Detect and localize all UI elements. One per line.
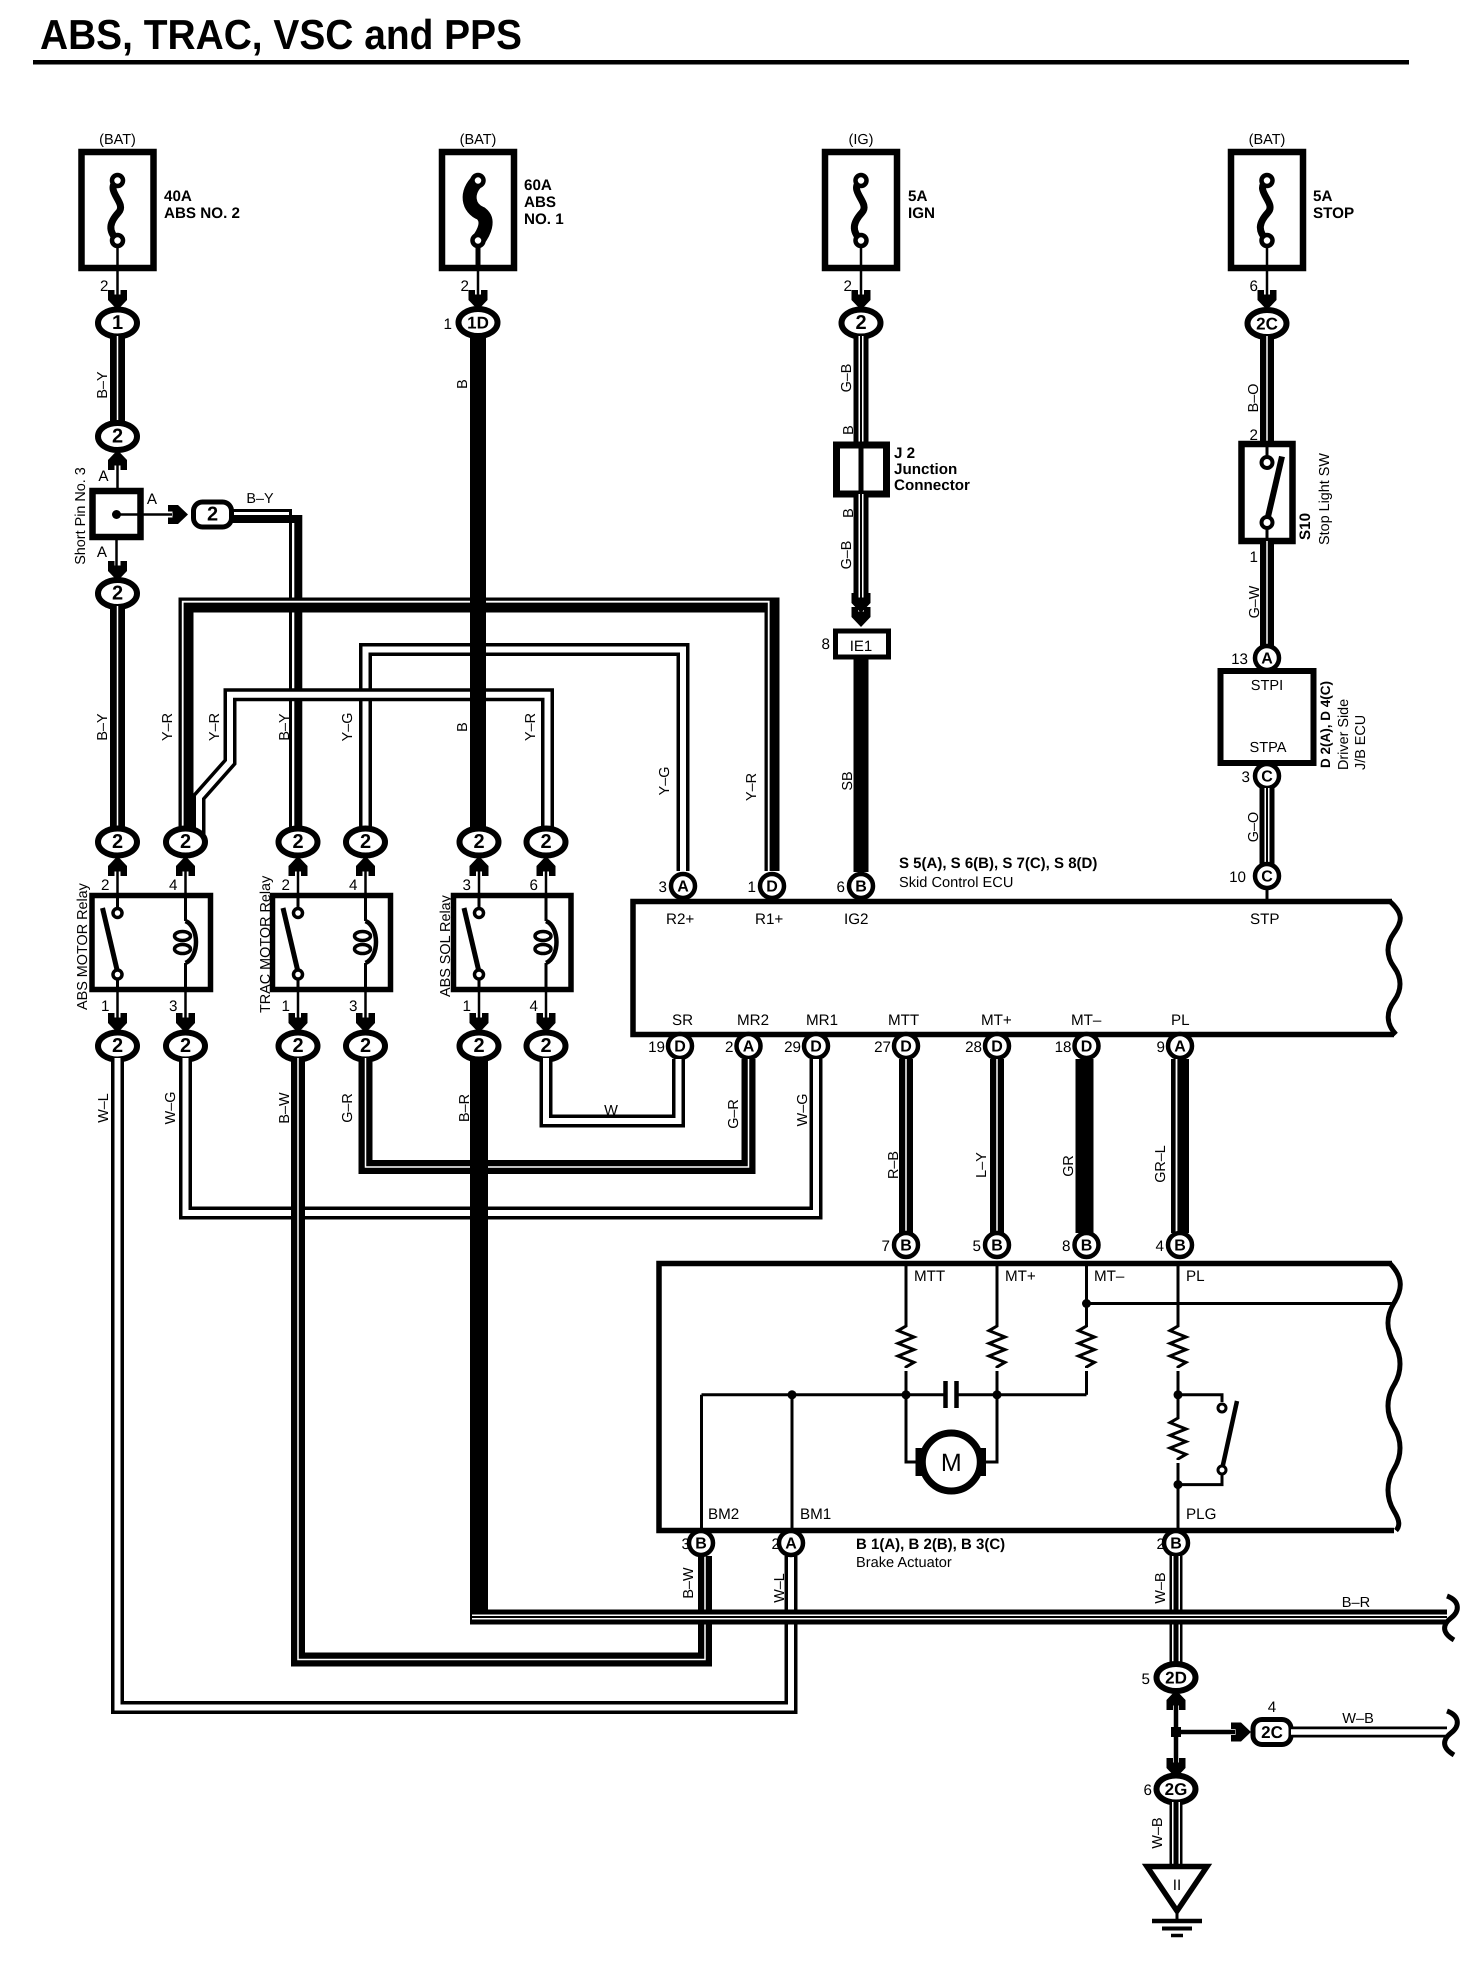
svg-text:2C: 2C bbox=[1261, 1723, 1283, 1742]
svg-text:W–B: W–B bbox=[1342, 1711, 1374, 1727]
svg-text:3: 3 bbox=[659, 879, 667, 896]
svg-text:2: 2 bbox=[180, 831, 191, 853]
svg-text:6: 6 bbox=[1250, 278, 1258, 295]
svg-text:BM1: BM1 bbox=[800, 1506, 831, 1523]
svg-text:Connector: Connector bbox=[894, 477, 970, 494]
svg-text:2: 2 bbox=[112, 1035, 123, 1057]
svg-text:B–Y: B–Y bbox=[277, 713, 293, 741]
svg-text:B–Y: B–Y bbox=[246, 491, 274, 507]
svg-text:60A: 60A bbox=[524, 177, 552, 194]
svg-text:3: 3 bbox=[1242, 769, 1250, 786]
svg-text:2: 2 bbox=[207, 504, 218, 526]
svg-text:5: 5 bbox=[1142, 1671, 1150, 1688]
svg-text:2: 2 bbox=[292, 1035, 303, 1057]
svg-text:PL: PL bbox=[1171, 1012, 1190, 1029]
svg-text:GR: GR bbox=[1061, 1155, 1077, 1177]
svg-text:W: W bbox=[604, 1103, 618, 1119]
svg-text:2: 2 bbox=[473, 831, 484, 853]
svg-text:W–B: W–B bbox=[1150, 1817, 1166, 1848]
svg-text:2: 2 bbox=[540, 1035, 551, 1057]
svg-text:4: 4 bbox=[1268, 1699, 1276, 1716]
svg-text:MTT: MTT bbox=[914, 1268, 945, 1285]
svg-text:Y–R: Y–R bbox=[160, 713, 176, 741]
svg-text:MT–: MT– bbox=[1094, 1268, 1125, 1285]
svg-text:B–R: B–R bbox=[457, 1094, 473, 1122]
svg-text:IG2: IG2 bbox=[844, 911, 868, 928]
svg-text:STPI: STPI bbox=[1251, 678, 1283, 694]
svg-text:2: 2 bbox=[112, 583, 123, 605]
svg-text:2: 2 bbox=[360, 831, 371, 853]
svg-text:W–G: W–G bbox=[795, 1094, 811, 1127]
svg-text:4: 4 bbox=[1156, 1238, 1164, 1255]
svg-text:A: A bbox=[1174, 1039, 1186, 1056]
svg-text:ABS MOTOR Relay: ABS MOTOR Relay bbox=[75, 882, 91, 1010]
svg-text:1: 1 bbox=[112, 312, 123, 334]
svg-text:2: 2 bbox=[844, 278, 852, 295]
svg-text:2G: 2G bbox=[1165, 1780, 1188, 1799]
svg-text:2: 2 bbox=[360, 1035, 371, 1057]
svg-text:27: 27 bbox=[874, 1039, 891, 1056]
svg-text:1: 1 bbox=[748, 879, 756, 896]
svg-text:6: 6 bbox=[837, 879, 845, 896]
svg-text:B: B bbox=[855, 879, 867, 896]
svg-text:Y–G: Y–G bbox=[340, 713, 356, 742]
svg-text:(IG): (IG) bbox=[849, 132, 874, 148]
svg-text:IGN: IGN bbox=[908, 205, 935, 222]
svg-text:NO. 1: NO. 1 bbox=[524, 211, 564, 228]
svg-text:2: 2 bbox=[855, 312, 866, 334]
svg-text:3: 3 bbox=[682, 1536, 690, 1553]
svg-text:B–R: B–R bbox=[1342, 1595, 1370, 1611]
svg-text:3: 3 bbox=[169, 998, 177, 1015]
svg-text:S 5(A), S 6(B), S 7(C), S 8(D): S 5(A), S 6(B), S 7(C), S 8(D) bbox=[899, 855, 1097, 872]
svg-text:D 2(A), D 4(C): D 2(A), D 4(C) bbox=[1318, 681, 1333, 768]
svg-text:1: 1 bbox=[282, 998, 290, 1015]
svg-text:10: 10 bbox=[1229, 869, 1246, 886]
svg-text:G–R: G–R bbox=[340, 1093, 356, 1123]
svg-text:S10: S10 bbox=[1297, 513, 1314, 540]
svg-text:2: 2 bbox=[100, 278, 108, 295]
svg-text:4: 4 bbox=[169, 877, 177, 894]
svg-text:2: 2 bbox=[461, 278, 469, 295]
svg-text:2: 2 bbox=[101, 877, 109, 894]
svg-text:2C: 2C bbox=[1256, 315, 1278, 334]
svg-text:W–L: W–L bbox=[96, 1093, 112, 1123]
svg-text:Short Pin No. 3: Short Pin No. 3 bbox=[73, 467, 89, 565]
svg-text:Y–R: Y–R bbox=[207, 713, 223, 741]
svg-text:MR2: MR2 bbox=[737, 1012, 769, 1029]
svg-text:SR: SR bbox=[672, 1012, 693, 1029]
svg-text:ABS SOL Relay: ABS SOL Relay bbox=[438, 894, 454, 997]
svg-text:B: B bbox=[841, 508, 857, 518]
svg-text:B: B bbox=[991, 1238, 1003, 1255]
svg-text:M: M bbox=[941, 1449, 962, 1477]
svg-text:Y–R: Y–R bbox=[744, 773, 760, 801]
svg-text:D: D bbox=[766, 879, 778, 896]
svg-text:PLG: PLG bbox=[1186, 1506, 1216, 1523]
svg-text:1: 1 bbox=[444, 316, 452, 333]
svg-text:2: 2 bbox=[112, 831, 123, 853]
svg-text:2: 2 bbox=[772, 1536, 780, 1553]
svg-text:B: B bbox=[455, 722, 471, 732]
svg-text:2: 2 bbox=[112, 426, 123, 448]
svg-text:GR–L: GR–L bbox=[1153, 1145, 1169, 1183]
svg-text:C: C bbox=[1261, 869, 1273, 886]
svg-text:PL: PL bbox=[1186, 1268, 1205, 1285]
svg-text:R1+: R1+ bbox=[755, 911, 783, 928]
svg-text:B–O: B–O bbox=[1246, 384, 1262, 413]
svg-text:MR1: MR1 bbox=[806, 1012, 838, 1029]
svg-text:R–B: R–B bbox=[886, 1151, 902, 1179]
svg-text:D: D bbox=[991, 1039, 1003, 1056]
svg-text:A: A bbox=[677, 879, 689, 896]
svg-text:D: D bbox=[900, 1039, 912, 1056]
svg-text:B: B bbox=[1174, 1238, 1186, 1255]
svg-text:9: 9 bbox=[1157, 1039, 1165, 1056]
svg-text:B 1(A), B 2(B), B 3(C): B 1(A), B 2(B), B 3(C) bbox=[856, 1536, 1005, 1553]
svg-text:D: D bbox=[674, 1039, 686, 1056]
svg-text:Y–G: Y–G bbox=[657, 767, 673, 796]
svg-text:1: 1 bbox=[463, 998, 471, 1015]
svg-text:3: 3 bbox=[463, 877, 471, 894]
svg-text:8: 8 bbox=[822, 636, 830, 653]
svg-text:II: II bbox=[1173, 1877, 1181, 1894]
svg-text:A: A bbox=[743, 1039, 755, 1056]
svg-text:B–Y: B–Y bbox=[95, 371, 111, 399]
svg-text:D: D bbox=[1081, 1039, 1093, 1056]
svg-text:B–Y: B–Y bbox=[95, 713, 111, 741]
svg-text:(BAT): (BAT) bbox=[460, 132, 497, 148]
svg-text:2: 2 bbox=[473, 1035, 484, 1057]
svg-text:Skid Control ECU: Skid Control ECU bbox=[899, 875, 1013, 891]
svg-text:G–R: G–R bbox=[726, 1099, 742, 1129]
svg-text:A: A bbox=[785, 1536, 797, 1553]
svg-text:G–W: G–W bbox=[1247, 585, 1263, 618]
svg-text:W–B: W–B bbox=[1153, 1572, 1169, 1603]
svg-text:J 2: J 2 bbox=[894, 445, 915, 462]
svg-text:A: A bbox=[97, 544, 108, 561]
svg-text:STOP: STOP bbox=[1313, 205, 1354, 222]
svg-text:MTT: MTT bbox=[888, 1012, 919, 1029]
svg-text:2: 2 bbox=[540, 831, 551, 853]
svg-text:(BAT): (BAT) bbox=[99, 132, 136, 148]
svg-text:Y–R: Y–R bbox=[523, 713, 539, 741]
svg-text:B: B bbox=[455, 379, 471, 389]
svg-text:MT+: MT+ bbox=[1005, 1268, 1036, 1285]
svg-text:MT–: MT– bbox=[1071, 1012, 1102, 1029]
svg-text:W–G: W–G bbox=[163, 1092, 179, 1125]
svg-text:B: B bbox=[1081, 1238, 1093, 1255]
svg-text:B–W: B–W bbox=[277, 1092, 293, 1124]
svg-text:4: 4 bbox=[349, 877, 357, 894]
svg-text:6: 6 bbox=[1144, 1782, 1152, 1799]
svg-text:W–L: W–L bbox=[772, 1573, 788, 1603]
svg-text:C: C bbox=[1261, 769, 1273, 786]
svg-text:B: B bbox=[695, 1536, 707, 1553]
svg-text:13: 13 bbox=[1231, 651, 1248, 668]
svg-text:1: 1 bbox=[1250, 549, 1258, 566]
svg-text:8: 8 bbox=[1062, 1238, 1070, 1255]
svg-text:Brake Actuator: Brake Actuator bbox=[856, 1555, 952, 1571]
svg-text:6: 6 bbox=[530, 877, 538, 894]
svg-text:ABS, TRAC, VSC and PPS: ABS, TRAC, VSC and PPS bbox=[40, 11, 522, 58]
svg-text:BM2: BM2 bbox=[708, 1506, 739, 1523]
svg-text:MT+: MT+ bbox=[981, 1012, 1012, 1029]
svg-text:TRAC MOTOR Relay: TRAC MOTOR Relay bbox=[258, 875, 274, 1013]
svg-text:2D: 2D bbox=[1165, 1669, 1187, 1688]
svg-text:18: 18 bbox=[1055, 1039, 1072, 1056]
svg-text:29: 29 bbox=[784, 1039, 801, 1056]
svg-text:2: 2 bbox=[282, 877, 290, 894]
svg-text:5: 5 bbox=[973, 1238, 981, 1255]
svg-text:2: 2 bbox=[1157, 1536, 1165, 1553]
svg-text:STP: STP bbox=[1250, 911, 1280, 928]
svg-text:4: 4 bbox=[530, 998, 538, 1015]
svg-text:B: B bbox=[900, 1238, 912, 1255]
svg-text:G–O: G–O bbox=[1246, 812, 1262, 842]
svg-text:G–B: G–B bbox=[839, 364, 855, 393]
svg-text:ABS: ABS bbox=[524, 194, 556, 211]
svg-text:Stop Light SW: Stop Light SW bbox=[1317, 453, 1333, 545]
svg-text:7: 7 bbox=[882, 1238, 890, 1255]
svg-text:2: 2 bbox=[292, 831, 303, 853]
svg-text:1: 1 bbox=[101, 998, 109, 1015]
svg-text:R2+: R2+ bbox=[666, 911, 694, 928]
svg-text:2: 2 bbox=[180, 1035, 191, 1057]
svg-text:L–Y: L–Y bbox=[974, 1152, 990, 1178]
svg-text:Driver Side: Driver Side bbox=[1336, 699, 1352, 770]
svg-text:1D: 1D bbox=[467, 314, 489, 333]
svg-text:(BAT): (BAT) bbox=[1249, 132, 1286, 148]
svg-text:3: 3 bbox=[349, 998, 357, 1015]
svg-text:B: B bbox=[1170, 1536, 1182, 1553]
svg-text:J/B ECU: J/B ECU bbox=[1353, 715, 1369, 770]
svg-text:A: A bbox=[98, 468, 109, 485]
svg-text:IE1: IE1 bbox=[850, 638, 873, 655]
svg-text:A: A bbox=[1261, 651, 1273, 668]
svg-text:2: 2 bbox=[725, 1039, 733, 1056]
svg-text:B–W: B–W bbox=[681, 1567, 697, 1599]
svg-text:G–B: G–B bbox=[839, 541, 855, 570]
svg-text:40A: 40A bbox=[164, 188, 192, 205]
svg-text:STPA: STPA bbox=[1249, 740, 1286, 756]
svg-text:SB: SB bbox=[840, 771, 856, 790]
svg-text:B: B bbox=[841, 425, 857, 435]
svg-text:A: A bbox=[147, 491, 158, 508]
svg-text:Junction: Junction bbox=[894, 461, 957, 478]
svg-text:D: D bbox=[810, 1039, 822, 1056]
svg-text:5A: 5A bbox=[908, 188, 927, 205]
svg-text:19: 19 bbox=[648, 1039, 665, 1056]
svg-text:ABS NO. 2: ABS NO. 2 bbox=[164, 205, 240, 222]
svg-text:5A: 5A bbox=[1313, 188, 1332, 205]
svg-text:28: 28 bbox=[965, 1039, 982, 1056]
